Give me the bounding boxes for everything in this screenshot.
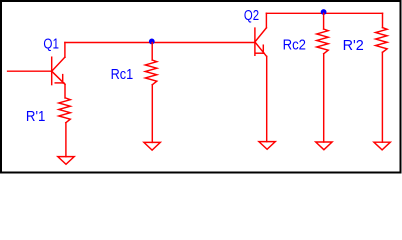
wire Q2 emitter to ground <box>266 56 268 141</box>
label Q2 <box>244 7 259 24</box>
label R'1 <box>26 108 46 125</box>
wire Q1 base lead <box>8 70 52 72</box>
resistor Rc1 <box>145 60 157 85</box>
label Rc2 <box>283 36 306 53</box>
resistor R'2 <box>376 28 388 53</box>
wire R'2 to ground <box>381 52 383 142</box>
label Rc1 <box>111 66 134 83</box>
wire Rc2 to ground <box>323 54 325 142</box>
node N1 junction <box>149 39 155 45</box>
transistor Q1 <box>52 57 65 84</box>
resistor Rc2 <box>317 29 329 54</box>
svg-text:R'1: R'1 <box>26 108 46 125</box>
ground under R'1 <box>58 157 74 165</box>
label R'2 <box>343 37 364 54</box>
svg-text:Q1: Q1 <box>43 36 59 53</box>
svg-text:R'2: R'2 <box>343 37 364 54</box>
node N2 junction <box>321 9 327 15</box>
wire Rc2 top lead <box>323 13 325 29</box>
ground under Rc1 <box>144 142 160 150</box>
ground under Q2 emitter <box>259 142 275 150</box>
wire Q1 collector riser <box>64 43 66 58</box>
label Q1 <box>43 36 59 53</box>
svg-text:Rc1: Rc1 <box>111 66 134 83</box>
svg-text:Q2: Q2 <box>244 7 259 24</box>
wire Q2 collector riser <box>265 13 267 27</box>
wire R'1 to ground <box>65 123 67 157</box>
ground under Rc2 <box>316 142 332 150</box>
resistor R'1 <box>59 98 71 123</box>
wire Q1 collector to Q2 base <box>65 42 255 44</box>
svg-text:Rc2: Rc2 <box>283 36 306 53</box>
wire Q1 emitter lead <box>64 84 66 98</box>
wire Rc1 top lead <box>151 43 153 61</box>
wire R'2 top lead <box>382 13 384 27</box>
transistor Q2 <box>255 28 267 57</box>
wire Rc1 to ground <box>151 85 153 143</box>
ground under R'2 <box>374 142 390 150</box>
wire Q2 collector rail <box>266 12 382 14</box>
